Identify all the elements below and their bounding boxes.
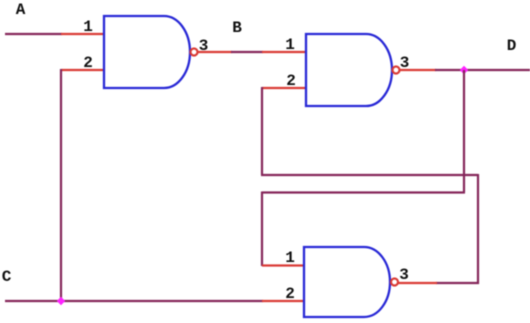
svg-text:2: 2 xyxy=(83,54,93,72)
wire net-D horizontal feedback to left (dark) xyxy=(262,191,465,193)
NAND gate U1 xyxy=(104,16,190,88)
wire U3 output net horizontal (dark) xyxy=(436,282,479,284)
NAND gate U2 xyxy=(306,34,392,106)
svg-text:A: A xyxy=(16,1,26,19)
wire U1 output stub (red) xyxy=(198,51,232,53)
svg-text:2: 2 xyxy=(285,285,295,303)
wire vertical down to U3 output net (dark) xyxy=(477,174,479,284)
wire U2 pin1 stub (red) xyxy=(262,51,306,53)
output bubble of U2 xyxy=(393,67,400,74)
wire net-D horizontal to right edge (dark) xyxy=(435,69,530,71)
wire U3 pin1 stub (red) xyxy=(262,264,304,266)
svg-text:1: 1 xyxy=(285,249,295,267)
svg-text:2: 2 xyxy=(286,72,296,90)
wire U3 pin2 stub (red) xyxy=(262,300,304,302)
wire U2 pin2 stub (red) xyxy=(262,87,306,89)
svg-text:D: D xyxy=(507,37,517,55)
svg-text:1: 1 xyxy=(83,18,93,36)
svg-text:3: 3 xyxy=(399,266,409,284)
svg-text:C: C xyxy=(2,268,12,286)
wire U3 output stub (red) xyxy=(398,282,437,284)
wire net-D vertical down to U3 pin1 (dark) xyxy=(261,192,263,267)
output bubble of U1 xyxy=(191,49,198,56)
svg-text:B: B xyxy=(232,19,242,37)
wire U1 pin1 stub (red) xyxy=(61,33,104,35)
wire U2 output stub (red) xyxy=(400,69,436,71)
NAND gate U3 xyxy=(304,247,390,317)
wire U1 pin2 stub (red) xyxy=(61,69,104,71)
wire net-A horizontal (dark) xyxy=(5,33,62,35)
wire vertical from U1 pin2 down to net C (dark) xyxy=(60,69,62,301)
wire vertical from U2 pin2 down (dark) xyxy=(261,87,263,175)
junction at node C xyxy=(57,297,65,305)
svg-text:1: 1 xyxy=(285,36,295,54)
wire net-D vertical drop from junction (dark) xyxy=(463,70,465,193)
wire horizontal feedback from U2 pin2 net (dark) xyxy=(261,174,478,176)
wire net-C horizontal (dark) xyxy=(5,300,263,302)
wire net-B middle segment (dark) xyxy=(231,51,263,53)
junction at node D xyxy=(460,66,468,74)
output bubble of U3 xyxy=(391,279,398,286)
